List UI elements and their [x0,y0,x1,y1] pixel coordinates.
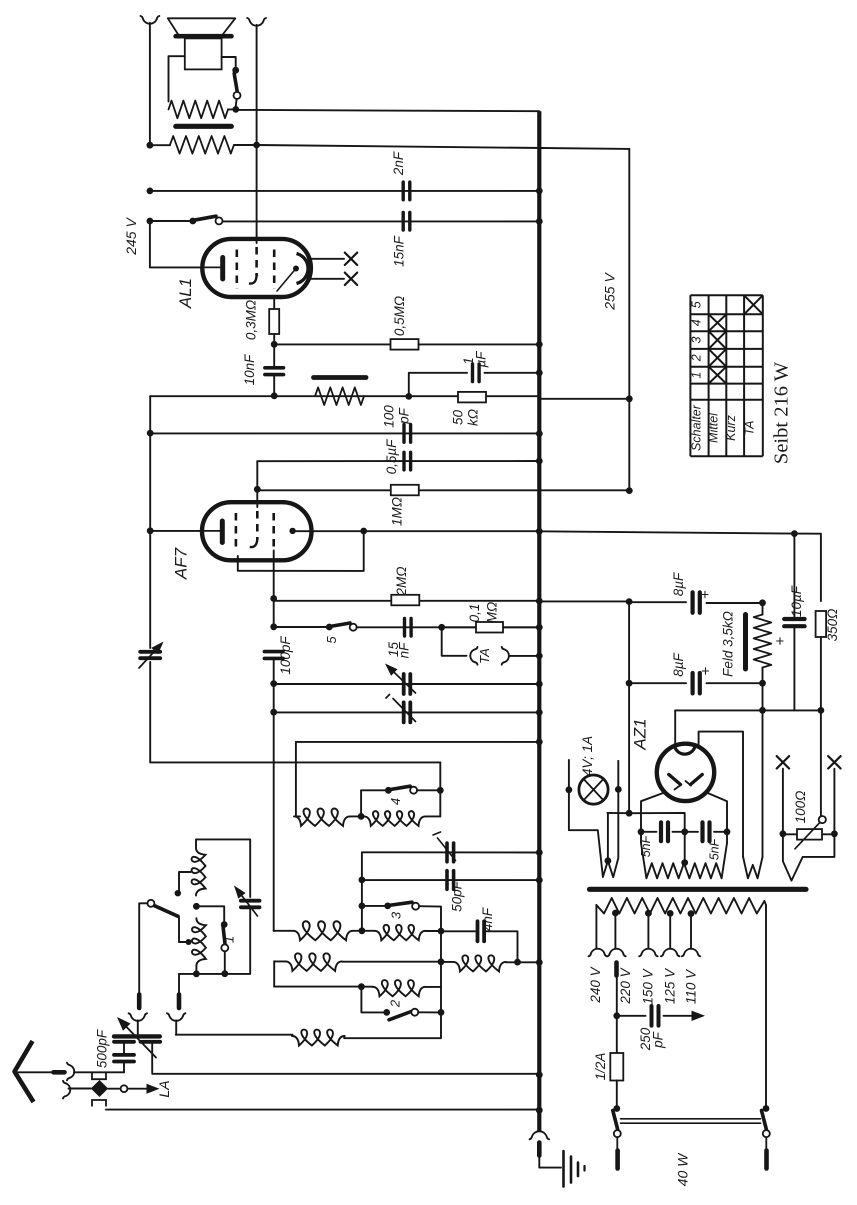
junction pot left [780,830,787,837]
cup 150V [639,949,657,957]
tube AL1 anode arc [297,254,309,284]
wire switch-5 line [273,599,275,627]
svg-text:3: 3 [389,911,404,919]
wire arrester to LA circle [108,1088,120,1090]
resistor 50kΩ [458,392,486,403]
tube AZ1 filament marks [669,775,681,785]
cup 125V [661,949,679,957]
switch 3 [384,903,391,910]
svg-text:4nF: 4nF [480,907,495,931]
antenna socket cup [67,1063,74,1081]
junction 5nF right [724,828,731,835]
junction pot right [831,830,838,837]
wire center tap link [607,812,629,814]
svg-text:+: + [698,666,715,675]
svg-text:Kurz: Kurz [724,414,738,440]
svg-text:5: 5 [324,636,339,644]
junction anode/loop [360,528,367,535]
capacitor 1µF [409,373,467,397]
wire osc top line [296,741,539,743]
junction 2M left [270,595,277,602]
svg-text:125 V: 125 V [663,967,678,1004]
svg-text:2: 2 [690,354,704,362]
resistor speaker shunt [169,101,229,119]
svg-text:2MΩ: 2MΩ [394,566,409,596]
tube AF7 cathode [220,521,225,543]
cup 220V [607,949,625,957]
wire 2M line [274,600,540,602]
tube AL1 grid 3 (dashed) [273,250,276,289]
svg-text:Seibt 216 W: Seibt 216 W [771,361,793,464]
capacitor 4nF [476,921,480,941]
junction sw2 right [438,1009,445,1016]
wire AZ1 cathode line [762,683,764,710]
wire speaker right lead [222,57,236,70]
wire 8uF-2 line [629,682,686,684]
switch 245V [189,218,196,225]
capacitor 250pF [617,1015,646,1017]
wire minus rail drop [628,602,630,684]
tube AL1 cathode [220,258,225,280]
wire tuning cap line 2 [274,711,540,713]
variable trimmer in grid line [140,650,160,654]
switch 5 [326,624,333,631]
label switch5 line [357,626,540,628]
svg-text:kΩ: kΩ [466,409,481,426]
wire tuning cap line 1 [274,683,540,685]
junction 2M bus [536,598,543,605]
junction anode bus [536,528,543,535]
junction rowC [358,983,365,990]
junction TA bus [536,653,543,660]
loudspeaker voice-coil box [185,38,222,69]
svg-text:2nF: 2nF [391,151,406,176]
wire left drop to plug [178,974,180,993]
series antenna capacitor [123,1044,125,1053]
mains plug pin 220V [614,963,619,976]
wire AZ1 filament diagonals [641,793,665,832]
svg-text:255 V: 255 V [602,272,618,311]
resistor 1MΩ [391,485,419,496]
svg-text:8µF: 8µF [671,652,686,676]
junction osc bus [536,739,543,746]
svg-text:4: 4 [388,798,403,805]
junction lamp line [626,810,633,817]
wire grid line continues [273,660,275,684]
svg-text:µF: µF [474,351,489,368]
junction 5nF left [638,828,645,835]
mains plug pin left [616,1137,618,1148]
capacitor 5nF left [641,831,657,833]
wire 1M line to 255V [257,489,629,491]
tube AZ1 envelope [657,744,714,801]
junction 8uF-1 left [626,598,633,605]
antenna coil 2 (vertical) [192,918,206,966]
junction tune2 bus [536,709,543,716]
junction earth bus [536,1107,543,1114]
tube AL1 grid 1 (dashed) [236,250,239,289]
wire earth line [106,1109,539,1111]
svg-text:8µF: 8µF [671,572,686,596]
tube AF7 grid 2 lead from top [256,489,258,507]
IF coil row C [274,986,361,988]
antenna bandfilter top line [196,839,250,897]
svg-text:50pF: 50pF [450,880,465,912]
wire lamp W mid up [607,813,609,861]
junction AF7 grid [254,486,261,493]
field coil core bar [743,615,748,670]
transformer core bar [590,887,807,892]
mains switch left [613,1105,620,1112]
wire 50pF trimmer line [362,851,539,853]
tube AL1 envelope [202,239,311,297]
switch gang linkage [621,1118,761,1120]
cup 240V [589,949,607,957]
choke core bar [314,375,367,380]
wire HT to winding [762,710,764,857]
field winding Feld 3,5k (zigzag) [762,603,764,615]
svg-text:Mittel: Mittel [707,412,721,443]
terminal TA arcs [470,647,477,665]
junction 8uF-2 left [626,680,633,687]
lightning arrester top box [92,1073,106,1079]
tube AL1 heater leads with X [308,258,344,260]
output transformer secondary winding [170,136,234,154]
junction 255V/1M [626,487,633,494]
svg-text:2: 2 [388,999,403,1008]
resistor 2MΩ [391,595,419,606]
wire sw4 left drop [360,790,362,816]
wire 220V selected down [616,976,618,1016]
svg-text:5: 5 [690,301,704,308]
variable capacitor 500pF rotor plate [114,1034,160,1038]
tube AF7 grid 3 (dashed) [272,513,275,551]
svg-text:+: + [772,636,789,645]
resistor 0,1MΩ [442,626,540,628]
svg-text:40 W: 40 W [675,1152,691,1186]
junction trim bus [536,849,543,856]
socket cup left [129,1013,147,1021]
junction rowA right [438,928,445,935]
wire 350 down to wiper [820,637,822,710]
wire socket left to 500pF [137,1020,139,1034]
wire osc coil right end [439,790,441,816]
500pF stator plates [114,1040,134,1044]
loudspeaker cone [168,18,236,35]
wire 50pF line [361,852,363,880]
switch position table [690,295,762,456]
junction 255V/50k [626,395,633,402]
capacitor 10uF [793,534,795,617]
svg-text:4V; 1A: 4V; 1A [580,736,595,776]
trimmer capacitor [445,843,449,862]
capacitor 10nF coupling [273,344,275,367]
junction lamp W mid [605,857,612,864]
resistor 0,5MΩ [391,339,419,350]
junction ant bus [536,1071,543,1078]
junction 1uF stub [405,393,412,400]
speaker terminal cup right [247,18,266,26]
lamp winding teeth [598,789,619,877]
switch 4 row [361,789,388,791]
svg-text:MΩ: MΩ [485,602,500,624]
choke winding (zigzag) [315,387,364,405]
svg-text:0,5µF: 0,5µF [384,439,399,475]
cup 110V [682,949,700,957]
wire speaker left lead [169,56,185,101]
junction 0,3M/0,5M [271,341,278,348]
antenna symbol [15,1041,34,1102]
svg-text:AF7: AF7 [172,547,191,580]
resistor 350 Ohm [816,611,827,637]
capacitor 2nF [402,182,405,200]
junction TA stub [438,624,445,631]
svg-text:TA: TA [477,648,492,664]
plug pin left [137,995,142,1009]
wire AF7 screen loop [238,531,364,571]
svg-text:AL1: AL1 [176,278,195,309]
earth ground symbol [562,1151,565,1187]
capacitor 5nF right [685,831,698,833]
arrow 250pF [664,1015,692,1017]
speaker terminal cup left [141,16,160,24]
capacitor 8uF lower [690,673,694,693]
svg-text:1: 1 [222,936,237,943]
wire grid-leak line (10nF row) [150,395,539,397]
wire AF7 anode line to bus [293,530,540,532]
wire TA line [442,627,467,656]
svg-text:1/2A: 1/2A [593,1053,608,1081]
wire antenna line to arrester [74,1071,124,1073]
switch 1 [221,921,228,928]
junction heater CT [681,859,688,866]
switch 2a blade [153,905,179,917]
500pF arrow [127,1027,156,1057]
junction speaker-resistor [232,106,239,113]
wire 100pF line [150,432,539,434]
svg-text:110 V: 110 V [684,968,699,1004]
junction 2nF bus [536,188,543,195]
resistor 0,3MΩ (AL1 grid leak) [273,297,275,311]
variable capacitor tuning 2 [402,702,406,722]
wire primary right end [764,901,766,1109]
wire anode line to HT bus corner [236,110,540,111]
junction 100pF bus [536,430,543,437]
table X mark TA 5 [744,295,763,314]
wire 245V switch line [150,220,193,222]
junction sw4 right [437,787,444,794]
tube AF7 anode [289,528,295,534]
wire 0,5uF line [257,460,539,462]
wire 4nF line [441,930,475,932]
junction tune1 bus [536,681,543,688]
X heater left [777,756,789,768]
wire 245V feed to AL1 cathode [150,221,203,267]
junction 2nF left [147,188,154,195]
wire 255V rail [628,149,630,492]
table X marks Mittel 1-4 [709,367,727,384]
junction 1uF bus [536,369,543,376]
svg-text:AZ1: AZ1 [631,718,650,750]
arrow LA [128,1088,147,1090]
wire AZ1 anode2 lead [699,732,743,857]
antenna plug pin [54,1070,65,1075]
capacitor 100pF [402,425,405,443]
X heater right [828,756,840,768]
svg-text:0,3MΩ: 0,3MΩ [244,300,259,340]
capacitor 8uF upper [690,592,694,612]
junction osc coil tap [358,813,365,820]
wire earth cup to arrester [69,1088,91,1090]
junction cathode left [147,527,154,534]
junction bottom line [221,970,228,977]
junction 50pF bus [536,877,543,884]
wire coil junction to switch 1 [196,906,224,923]
svg-text:0,1: 0,1 [467,604,482,623]
bus bottom connector pin [537,1143,542,1156]
svg-text:100: 100 [382,405,397,428]
lightning arrester bottom box [92,1100,106,1107]
wire switch-3 row [361,880,363,906]
junction 245V left [147,218,154,225]
junction 10nF line [271,392,278,399]
wire AF7 grid top lead [256,461,258,489]
svg-text:3: 3 [690,336,704,343]
svg-text:10µF: 10µF [789,585,804,617]
capacitor 100pF AF7 grid [264,650,283,654]
wire screen feed right of bus [539,531,794,533]
antenna coupling coil row E [344,1012,441,1038]
wire AZ1 top lead [674,710,676,744]
plug pin right [177,995,182,1009]
junction AZ1 cathode [759,707,766,714]
svg-text:350Ω: 350Ω [825,609,840,642]
wire AF7 cathode line [150,530,204,532]
bus bottom connector cup [530,1131,550,1139]
wire grid-leak drop to switch4 row [149,396,151,648]
antenna coil 1 (vertical) [192,848,206,896]
junction 250pF [613,1012,620,1019]
wire socket right to coil row E [175,1020,177,1034]
svg-text:100Ω: 100Ω [793,791,808,824]
junction 0,5uF bus [536,458,543,465]
svg-text:Feld 3,5kΩ: Feld 3,5kΩ [721,611,736,677]
tube AL1 anode connection [277,269,296,291]
svg-text:100pF: 100pF [278,636,293,675]
variable capacitor tuning 1 [402,674,406,694]
junction sw5 bus [536,624,543,631]
junction 100pF left [147,430,154,437]
svg-text:15nF: 15nF [392,235,407,267]
wire 0,5M line [274,343,539,345]
wire grid line to switch4 row [150,662,440,762]
lamp support stubs [568,760,570,790]
tube AZ1 anode cap arc [675,746,695,754]
capacitor 50pF [445,871,449,890]
wire switch2a to plug [139,903,147,993]
junction 350 line [818,707,825,714]
wire OT to 255V rail [257,145,630,149]
loudspeaker diaphragm bar [176,34,232,39]
rectifier heater winding teeth [640,832,642,843]
primary winding teeth [596,898,764,914]
svg-text:LA: LA [156,1080,172,1097]
svg-text:500pF: 500pF [95,1029,110,1068]
wire to earth symbol [539,1156,561,1168]
lightning arrester diamond [91,1080,108,1097]
svg-text:220 V: 220 V [618,966,633,1004]
junction 10uF top [791,530,798,537]
svg-text:240 V: 240 V [588,965,603,1003]
junction rowA mid [359,927,366,934]
pilot lamp 4V 1A [579,775,608,804]
output transformer core bar [176,124,232,129]
wire primary left end to 240V cup [595,905,597,949]
antenna coil 1 tap [179,872,191,891]
chassis bus (thick) [537,111,541,1131]
wire osc left link [295,742,297,817]
junction OT left [147,142,154,149]
svg-text:10nF: 10nF [242,354,257,386]
tube AF7 envelope [202,502,312,560]
svg-text:+: + [697,590,714,599]
wire antenna line right segment [152,1073,539,1075]
oscillator coil row [296,815,300,817]
socket cup right [167,1013,185,1021]
IF coil row B [273,961,275,986]
junction Feld bottom [759,680,766,687]
antenna coil 2 tap [186,939,192,945]
fuse 1/2A [616,1016,618,1053]
mains plug pin right [765,1137,767,1148]
junction Feld top [759,599,766,606]
switch 2 row [361,987,386,1013]
capacitor 0,5µF [402,452,405,470]
svg-text:0,5MΩ: 0,5MΩ [392,296,407,336]
junction 5nF mid [681,828,688,835]
junction rowB bus [536,959,543,966]
capacitor 15nF (pickup) [403,618,406,636]
switch speaker [232,67,239,74]
capacitor 15nF [402,212,405,230]
IF coil row A [361,906,363,931]
wire lamp left to winding [569,790,598,830]
wire 500pF right leg [151,1044,153,1073]
svg-text:Schalter: Schalter [690,404,704,451]
wire antenna lead [18,1071,53,1073]
tube AL1 grid 2 lead from top [256,146,258,243]
AZ1 heater winding teeth [743,857,763,879]
wire AF7 grid3 drop [273,551,275,599]
potentiometer 100 Ohm [783,833,835,835]
junction 15nF bus [536,218,543,225]
oscillator padding capacitor [241,899,260,903]
svg-text:nF: nF [397,642,412,659]
junction coil1/coil2 [193,903,200,910]
svg-text:4: 4 [690,319,704,326]
heater winding right tooth [783,834,835,881]
tap wires [612,910,619,917]
tube AF7 grid 1 (dashed) [235,513,238,551]
svg-text:150 V: 150 V [641,967,656,1004]
wire TA to bus [510,655,540,657]
svg-text:245 V: 245 V [123,217,139,256]
wire osc cap down [179,909,250,974]
wire cathode to 10uF/350 [763,709,821,711]
svg-text:1: 1 [690,372,704,379]
wire to 350 Ohm top [794,534,821,601]
junction OT right [253,142,260,149]
